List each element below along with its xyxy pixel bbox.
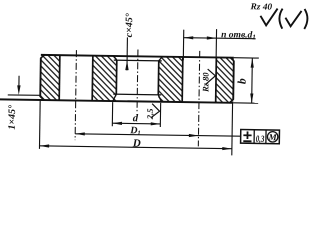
svg-text:Rz 40: Rz 40 — [249, 1, 272, 11]
svg-text:D: D — [132, 137, 141, 149]
svg-text:2,5: 2,5 — [145, 108, 155, 121]
svg-text:c×45°: c×45° — [124, 13, 135, 37]
svg-text:d: d — [133, 113, 139, 124]
svg-text:0,3: 0,3 — [256, 135, 265, 145]
svg-text:M: M — [268, 132, 278, 142]
svg-text:n отв.d1: n отв.d1 — [221, 30, 256, 41]
svg-text:b: b — [236, 78, 248, 84]
svg-text:1×45°: 1×45° — [7, 105, 18, 130]
svg-text:Rz 80: Rz 80 — [200, 72, 210, 93]
